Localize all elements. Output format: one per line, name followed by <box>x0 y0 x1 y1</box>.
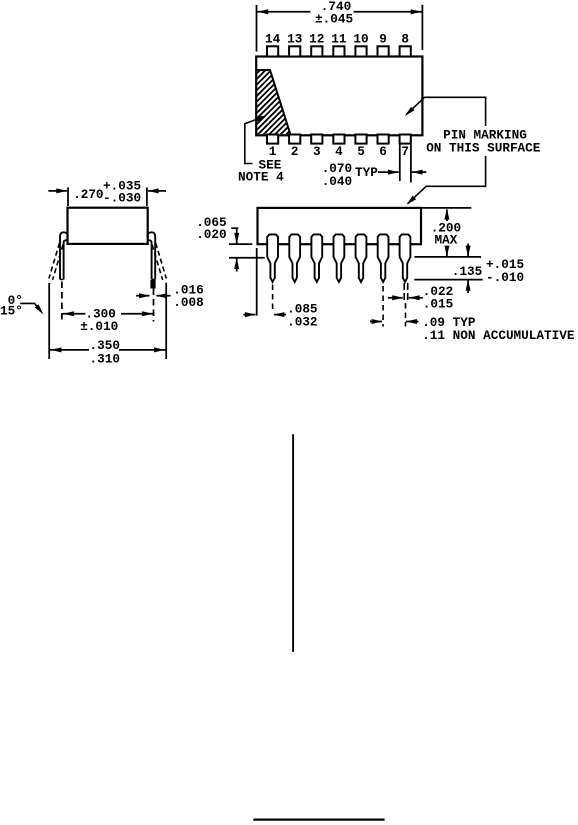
svg-text:3: 3 <box>313 144 321 159</box>
dimension .740 +-.045 left extension line <box>256 5 258 52</box>
svg-text:.310: .310 <box>90 351 120 366</box>
svg-text:-.010: -.010 <box>486 270 524 285</box>
svg-text:.270: .270 <box>73 187 103 202</box>
svg-text:4: 4 <box>335 144 343 159</box>
right lead splayed 15 deg dashed position <box>156 243 167 279</box>
svg-text:10: 10 <box>353 32 368 47</box>
svg-text:.008: .008 <box>173 295 203 310</box>
dimension .270 extension lines <box>67 187 69 206</box>
top view package body <box>256 57 422 136</box>
dimension .016/.008 arrows <box>136 295 149 297</box>
side view pins 1-7 with tapered tips <box>267 234 278 282</box>
dimension .740 +-.045 right extension line <box>421 5 423 50</box>
fold/crease vertical line <box>292 434 294 652</box>
svg-text:9: 9 <box>379 32 387 47</box>
top view pins 1-7 (bottom row leads) <box>267 135 278 144</box>
dimension .200 MAX <box>446 210 448 222</box>
svg-text:8: 8 <box>401 32 409 47</box>
bottom rule line <box>253 818 384 820</box>
svg-text:2: 2 <box>291 144 299 159</box>
end view package body <box>68 208 148 244</box>
dimension .300 +-.010 <box>63 313 86 315</box>
svg-text:±.010: ±.010 <box>80 319 118 334</box>
svg-text:14: 14 <box>265 32 281 47</box>
splayed lead tip extension lines for .350 <box>48 283 50 359</box>
dimension .070 right arrow <box>412 171 427 173</box>
svg-text:11: 11 <box>331 32 347 47</box>
dimension .350/.310 <box>50 349 89 351</box>
svg-text:.135: .135 <box>452 264 482 279</box>
pin marking callout bracket and arrows <box>406 97 485 126</box>
leader to pin 1 marking (see note 4) <box>245 116 265 163</box>
svg-text:ON THIS SURFACE: ON THIS SURFACE <box>426 141 541 156</box>
left lead splayed 15 deg dashed position <box>49 243 60 279</box>
seating plane reference line <box>414 256 481 258</box>
dimension .270 arrows <box>48 190 66 192</box>
svg-text:NOTE 4: NOTE 4 <box>238 169 284 184</box>
pin 7 tip edge extension lines <box>403 283 405 302</box>
pin 6 dashed centerline <box>382 286 384 327</box>
dimension .09 pin spacing arrows <box>370 321 382 323</box>
leader for lead angle <box>20 303 41 311</box>
svg-text:12: 12 <box>309 32 324 47</box>
svg-text:5: 5 <box>357 144 365 159</box>
side view package body <box>258 208 422 244</box>
dimension .740 line left segment with arrow <box>257 11 311 13</box>
lead centerline extensions for .300 <box>61 282 63 322</box>
dimension .135 +.015/-.010 arrows <box>467 244 469 257</box>
dimension .065 extension lines and arrows <box>229 243 252 245</box>
svg-text:15°: 15° <box>0 303 23 318</box>
side view body top extension line for .200 <box>421 207 471 209</box>
svg-text:.032: .032 <box>287 315 317 330</box>
svg-text:MAX: MAX <box>435 232 458 247</box>
svg-text:.040: .040 <box>322 174 352 189</box>
svg-text:±.045: ±.045 <box>315 11 353 26</box>
pin 1 dashed centerline <box>272 285 274 311</box>
dimension .022/.015 arrows <box>388 297 403 299</box>
svg-text:-.030: -.030 <box>103 191 141 206</box>
dimension .070 left arrow <box>378 171 399 173</box>
pin 7 dashed centerline <box>405 303 407 327</box>
svg-text:13: 13 <box>287 32 302 47</box>
svg-text:.020: .020 <box>196 227 226 242</box>
dimension .085/.032 arrows <box>244 314 256 316</box>
svg-text:.11 NON ACCUMULATIVE: .11 NON ACCUMULATIVE <box>422 328 575 343</box>
left lead (end view) <box>60 232 68 279</box>
pin tip reference line <box>414 279 482 281</box>
svg-text:.015: .015 <box>423 297 453 312</box>
svg-text:TYP: TYP <box>355 165 378 180</box>
right lead (end view) <box>147 232 155 279</box>
dimension .740 line right segment with arrow <box>354 11 423 13</box>
svg-text:7: 7 <box>401 144 409 159</box>
svg-text:6: 6 <box>379 144 387 159</box>
body-edge extension line for .085 <box>256 248 258 316</box>
top view pins 14-8 (top row leads) <box>267 46 278 56</box>
dimension .070 pin-7 extension lines <box>399 144 401 181</box>
